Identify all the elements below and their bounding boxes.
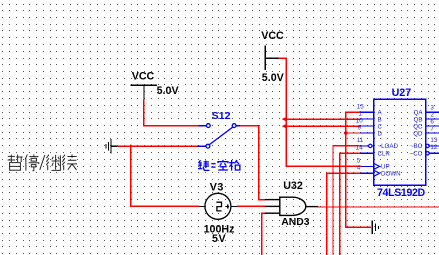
ground (right) [372,221,380,235]
svg-text:12: 12 [430,144,437,151]
svg-text:10: 10 [356,117,363,124]
svg-text:CLR: CLR [378,151,391,158]
chip U27 body [374,99,426,185]
svg-text:VCC: VCC [132,71,155,83]
svg-text:VCC: VCC [261,30,284,42]
label pause/continue (Chinese, black) [8,154,77,170]
wire A and D pins to ground (right) [346,112,371,227]
power VCC (right) [265,46,278,71]
power VCC (left) [131,85,157,99]
svg-text:QD: QD [413,130,423,137]
pin A (15) stub [360,111,374,113]
node junction D row [344,131,348,135]
wire B pin tap with arrow [284,118,360,120]
wire AND output to right edge [318,206,439,208]
svg-text:9: 9 [358,124,362,131]
switch S12 [197,124,240,148]
svg-text:AND3: AND3 [281,217,310,228]
wire C pin tap with arrow [284,125,360,127]
wire VCC-left to switch top throw [144,99,199,125]
svg-text:14: 14 [356,145,363,152]
wire V3 to AND input B [237,205,265,207]
svg-text:U32: U32 [283,180,303,192]
svg-text:13: 13 [430,137,437,144]
svg-text:U27: U27 [392,87,412,99]
wire VCC-right down to UP pin [278,58,361,166]
svg-text:74LS192D: 74LS192D [377,187,426,199]
pin C (10) stub [360,125,374,127]
pin B (1) stub [360,118,374,120]
svg-text:4: 4 [357,165,361,172]
pin DOWN (4) stub with clock triangle [361,171,380,177]
pin QC (6) stub [426,125,439,127]
svg-text:5V: 5V [212,233,226,245]
pin UP (5) stub with clock triangle [361,164,380,170]
op AND3 gate U32 [265,196,318,216]
pin QD (7) stub [426,132,439,134]
pin number labels [356,104,438,172]
wire switch pole to AND input A [240,126,265,200]
svg-text:D: D [378,130,383,137]
svg-text:6: 6 [430,118,434,125]
pin ~LOAD (11) stub with inversion bubble [360,144,374,147]
svg-text:V3: V3 [210,181,224,193]
pin CLR (14) stub [361,152,374,154]
wire AND input C from bottom edge [262,213,265,255]
svg-text:11: 11 [357,137,364,144]
pin name labels [378,110,424,178]
label key=space (blue) [198,160,240,171]
svg-text:DOWN: DOWN [381,171,401,178]
svg-text:~BO: ~BO [410,143,423,150]
svg-text:QB: QB [414,116,423,123]
wire CLR to bottom edge [340,153,361,255]
wire junction down to V3 [131,146,199,206]
svg-text:5.0V: 5.0V [157,85,180,97]
svg-text:~LOAD: ~LOAD [378,143,399,150]
svg-text:7: 7 [430,125,434,132]
node junction gnd/V3 [129,144,133,147]
clock source V3 [199,193,237,219]
wire D pin from junction [346,132,360,134]
svg-text:~CO: ~CO [410,151,423,158]
pin ~CO (12) stub with inversion bubble [426,152,439,155]
svg-text:S12: S12 [212,110,231,122]
wire AND output branch up to DOWN pin [327,173,361,255]
svg-text:B: B [378,116,382,123]
wire ground to switch bottom throw [117,145,197,147]
pin QB (2) stub [426,118,439,120]
pin D (9) stub [360,132,374,134]
wire ~LOAD to bottom edge [333,146,360,255]
ground (left) [106,139,118,154]
pin ~BO (13) stub with inversion bubble [426,144,439,147]
pin QA (3) stub [426,111,439,113]
svg-text:5.0V: 5.0V [262,72,285,84]
